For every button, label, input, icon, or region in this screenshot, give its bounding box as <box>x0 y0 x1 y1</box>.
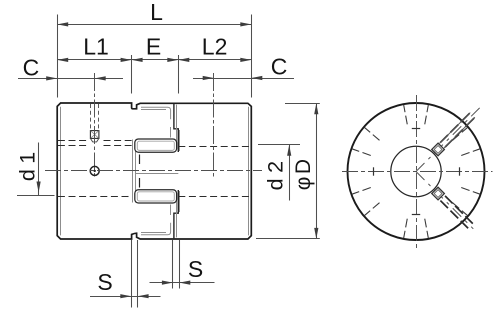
svg-text:E: E <box>146 33 161 59</box>
svg-text:C: C <box>23 54 40 80</box>
svg-text:L1: L1 <box>83 34 109 60</box>
svg-text:S: S <box>97 269 112 295</box>
svg-text:L: L <box>150 0 163 25</box>
svg-text:L2: L2 <box>202 33 228 59</box>
svg-text:d2: d2 <box>264 155 288 190</box>
svg-text:d1: d1 <box>16 146 40 181</box>
svg-text:C: C <box>271 54 288 80</box>
svg-text:S: S <box>188 256 203 282</box>
svg-text:φD: φD <box>292 157 315 191</box>
